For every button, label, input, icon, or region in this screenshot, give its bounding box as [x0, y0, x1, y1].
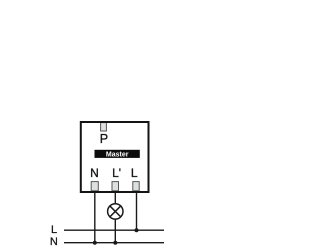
Master label bar: [95, 150, 140, 159]
label L (terminal): [131, 166, 138, 180]
wire lamp to N bus: [114, 219, 116, 243]
device box U1 Master: [81, 122, 149, 192]
junction lamp wire / N bus: [113, 241, 117, 245]
svg-text:Master: Master: [106, 151, 129, 158]
label P: [100, 132, 108, 146]
lamp E1: [108, 204, 123, 219]
terminal N: [91, 182, 98, 191]
junction N wire / N bus: [93, 241, 97, 245]
label L' (terminal): [112, 166, 121, 180]
label L (bus): [51, 224, 57, 236]
svg-text:N: N: [50, 236, 58, 248]
svg-text:L: L: [131, 166, 138, 180]
terminal L': [112, 182, 119, 191]
terminal P: [101, 123, 107, 131]
wire L' terminal to lamp: [114, 193, 116, 204]
svg-text:L: L: [51, 224, 57, 236]
wire L terminal to L bus: [136, 193, 138, 231]
N bus line: [64, 242, 164, 244]
wire N terminal to N bus: [94, 193, 96, 243]
terminal L: [133, 182, 139, 191]
junction L wire / L bus: [135, 228, 139, 232]
svg-text:P: P: [100, 132, 108, 146]
svg-text:L': L': [112, 166, 121, 180]
L bus line: [64, 229, 164, 231]
label N (bus): [50, 236, 58, 248]
label N (terminal): [90, 166, 99, 180]
svg-text:N: N: [90, 166, 99, 180]
